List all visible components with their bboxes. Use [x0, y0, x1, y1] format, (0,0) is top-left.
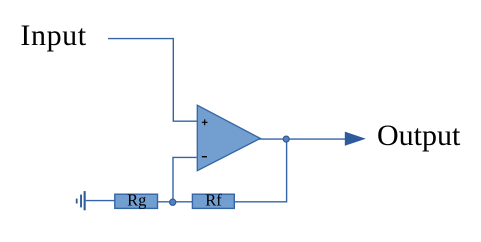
svg-text:Rg: Rg [127, 191, 146, 210]
junction feedback node [170, 199, 176, 205]
wire ground to Rg [86, 200, 115, 202]
wire input to op-amp non-inverting input [108, 39, 197, 122]
wire inverting input to feedback node [173, 157, 197, 201]
pin + (non-inverting) [202, 119, 208, 125]
junction output node [283, 136, 289, 142]
wire op-amp output to junction [258, 138, 287, 140]
pin - (inverting) [202, 156, 207, 158]
resistor Rg [115, 194, 158, 208]
arrow output [345, 132, 366, 146]
svg-text:Output: Output [377, 119, 461, 152]
op-amp U1 [197, 105, 260, 171]
svg-text:Rf: Rf [205, 191, 222, 210]
resistor Rf [192, 194, 234, 208]
wire Rg to Rf [158, 201, 193, 203]
wire junction to arrow [287, 138, 347, 140]
wire feedback from output junction down to Rf [234, 139, 286, 202]
svg-text:Input: Input [20, 19, 86, 52]
ground [76, 191, 86, 210]
